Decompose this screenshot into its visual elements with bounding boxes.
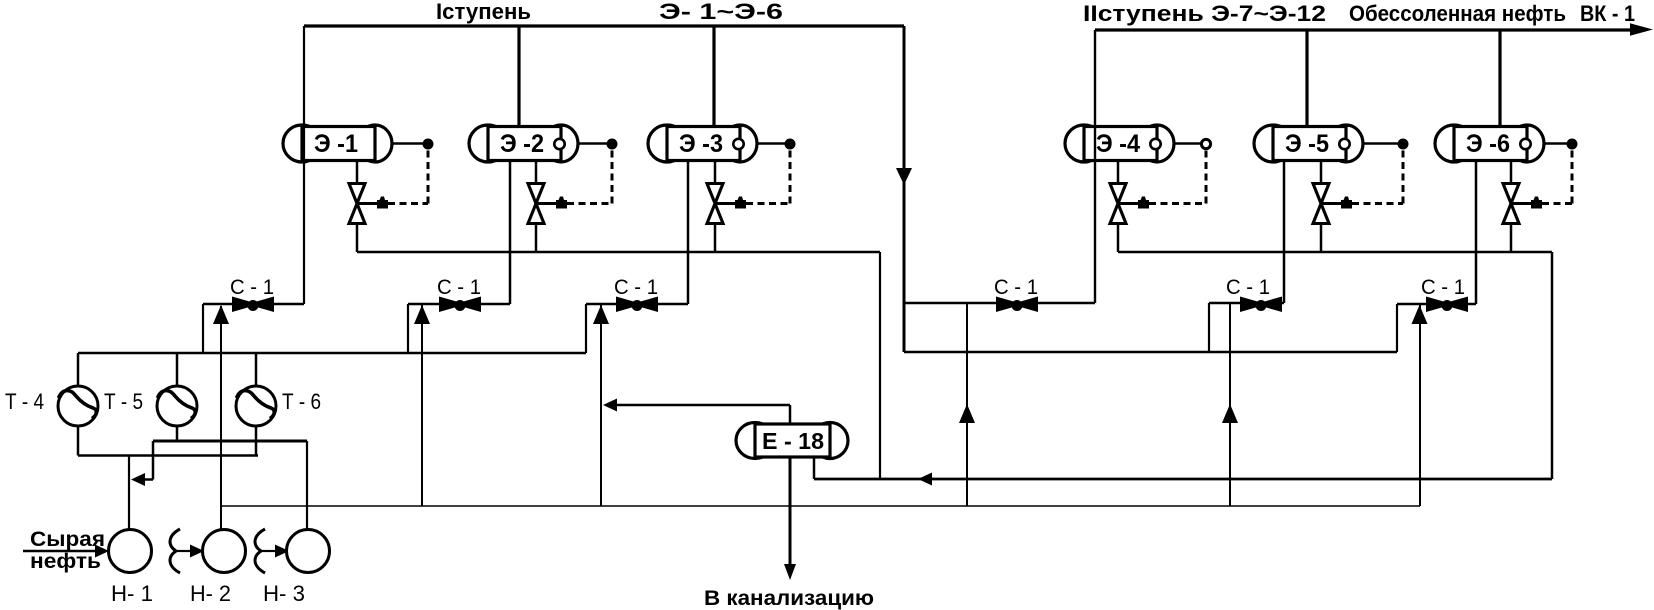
svg-text:С - 1: С - 1: [994, 276, 1038, 299]
svg-text:Э -3: Э -3: [679, 130, 723, 158]
svg-text:IIступень Э-7~Э-12: IIступень Э-7~Э-12: [1083, 1, 1326, 26]
svg-text:Т - 5: Т - 5: [104, 389, 143, 414]
svg-text:С - 1: С - 1: [437, 276, 481, 299]
svg-text:Э -5: Э -5: [1285, 130, 1329, 158]
svg-text:Т - 4: Т - 4: [5, 389, 44, 414]
svg-text:Э -4: Э -4: [1096, 130, 1140, 158]
svg-text:С - 1: С - 1: [614, 276, 658, 299]
svg-text:Н- 3: Н- 3: [263, 581, 305, 606]
svg-text:Т - 6: Т - 6: [282, 389, 321, 414]
svg-text:нефть: нефть: [30, 550, 101, 573]
svg-text:С - 1: С - 1: [230, 276, 274, 299]
svg-text:Э -2: Э -2: [500, 130, 544, 158]
svg-text:Э- 1~Э-6: Э- 1~Э-6: [659, 0, 783, 24]
svg-text:Е - 18: Е - 18: [762, 428, 824, 454]
svg-text:Iступень: Iступень: [436, 0, 531, 24]
svg-text:Обессоленная нефть: Обессоленная нефть: [1349, 1, 1566, 26]
svg-text:ВК - 1: ВК - 1: [1580, 1, 1635, 26]
svg-text:Н- 1: Н- 1: [111, 581, 153, 606]
svg-text:Сырая: Сырая: [30, 528, 105, 551]
svg-text:С - 1: С - 1: [1226, 276, 1270, 299]
svg-text:Э -1: Э -1: [314, 130, 358, 158]
svg-text:С - 1: С - 1: [1421, 276, 1465, 299]
svg-text:В канализацию: В канализацию: [704, 587, 874, 610]
svg-text:Н- 2: Н- 2: [190, 581, 231, 606]
svg-text:Э -6: Э -6: [1466, 130, 1510, 158]
